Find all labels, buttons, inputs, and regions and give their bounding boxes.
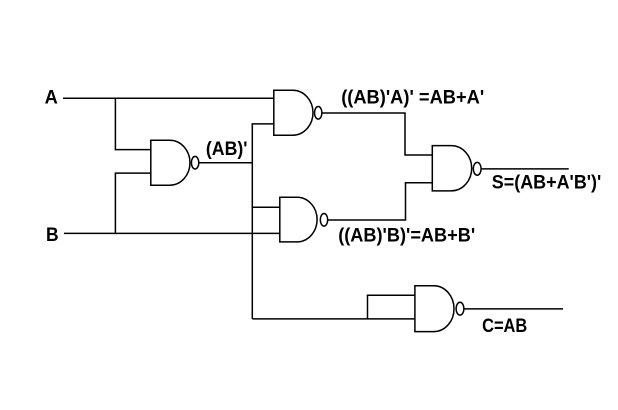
wire: U5 top input stub xyxy=(367,294,415,296)
wire: vertical from A wire down to U1 top input xyxy=(114,98,116,150)
wire: U4 top input stub xyxy=(404,154,432,156)
NAND gate U2 (inputs A and (AB)') xyxy=(274,90,322,135)
svg-text:C=AB: C=AB xyxy=(482,316,527,337)
wire: U5 output C xyxy=(464,308,563,310)
NAND gate U4 (sum gate) xyxy=(432,146,481,191)
wire: U1 top input stub xyxy=(115,149,152,151)
wire: U3 top input stub from (AB)' net xyxy=(252,206,280,208)
svg-text:S=(AB+A'B')': S=(AB+A'B')' xyxy=(492,173,602,194)
wire: U3 output horizontal xyxy=(328,219,407,221)
wire: U1 output to (AB)' vertical net xyxy=(199,162,253,164)
wire: vertical from U2 output down to U4 top input xyxy=(404,113,406,155)
NAND gate U5 (carry gate, inverter of (AB)') xyxy=(415,286,464,332)
wire: vertical from U1 bottom input down to B wire xyxy=(114,173,116,234)
svg-text:B: B xyxy=(46,225,59,246)
svg-text:A: A xyxy=(45,88,58,109)
wire: (AB)' vertical net from U2 bottom input down to U5 input xyxy=(251,124,253,319)
wire: U1 bottom input stub xyxy=(115,172,152,174)
wire: input A horizontal to gate U2 top input xyxy=(63,97,274,99)
NAND gate U1 (output (AB)') xyxy=(151,140,199,185)
svg-text:((AB)'A)' =AB+A': ((AB)'A)' =AB+A' xyxy=(341,87,484,108)
svg-text:((AB)'B)'=AB+B': ((AB)'B)'=AB+B' xyxy=(338,225,475,246)
NAND gate U3 (inputs (AB)' and B) xyxy=(280,197,328,242)
wire: riser tying U5 inputs together xyxy=(367,295,369,319)
wire: U4 output S xyxy=(481,168,569,170)
wire: U2 output horizontal xyxy=(322,112,406,114)
wire: input B horizontal to gate U3 bottom input xyxy=(64,232,280,234)
wire: U2 bottom input stub xyxy=(252,123,274,125)
wire: vertical from U3 output up to U4 bottom input xyxy=(405,183,407,220)
wire: U4 bottom input stub xyxy=(405,182,433,184)
wire: (AB)' net horizontal to U5 bottom input xyxy=(252,318,415,320)
svg-text:(AB)': (AB)' xyxy=(206,139,248,160)
